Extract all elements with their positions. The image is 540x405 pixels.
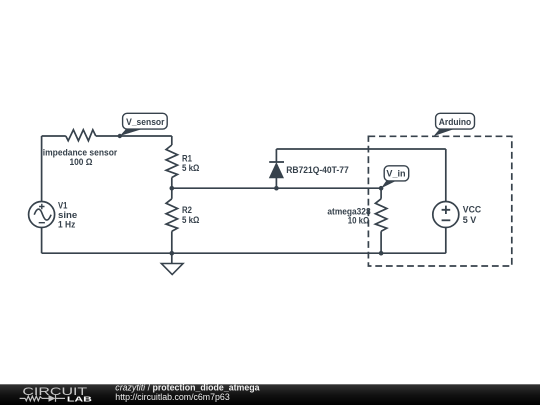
svg-text:http://circuitlab.com/c6m7p63: http://circuitlab.com/c6m7p63	[115, 392, 230, 402]
wire R2 top lead	[171, 188, 173, 199]
wire atmega bottom lead	[380, 231, 382, 253]
node junction atmega resistor bottom on bottom rail	[379, 251, 384, 256]
wire bottom rail	[42, 252, 446, 254]
svg-text:5 kΩ: 5 kΩ	[182, 163, 199, 173]
svg-text:5 V: 5 V	[463, 215, 477, 225]
svg-text:VCC: VCC	[463, 205, 482, 215]
footer logo circuit glyph (wire, resistor, diode)	[20, 395, 65, 402]
wire R1 top lead	[171, 136, 173, 145]
wire R1 bottom lead	[171, 178, 173, 189]
wire top-left rail right segment	[96, 135, 172, 137]
svg-text:RB721Q-40T-77: RB721Q-40T-77	[286, 165, 349, 175]
wire VCC bottom lead	[445, 228, 447, 254]
resistor R_sensor zigzag (impedance sensor)	[66, 130, 96, 141]
node flag V_in	[381, 166, 409, 188]
svg-text:R2: R2	[182, 205, 192, 215]
svg-text:10 kΩ: 10 kΩ	[348, 215, 370, 225]
svg-text:LAB: LAB	[67, 395, 93, 404]
svg-text:100 Ω: 100 Ω	[70, 157, 93, 167]
voltage source V1 (sine)	[29, 202, 55, 228]
resistor atmega328 zigzag	[375, 199, 386, 232]
svg-text:R1: R1	[182, 154, 192, 164]
resistor R1 zigzag	[166, 145, 177, 178]
diode D1 RB721Q (schottky, pointing up)	[269, 149, 284, 188]
svg-text:Arduino: Arduino	[439, 117, 472, 127]
ground symbol	[161, 253, 183, 274]
node junction R1/R2	[170, 186, 175, 191]
node flag Arduino	[434, 113, 475, 136]
wire R2 bottom lead	[171, 231, 173, 253]
node junction bottom rail / R2 / ground	[170, 251, 175, 256]
svg-text:V_sensor: V_sensor	[126, 117, 165, 127]
voltage source VCC (DC)	[433, 202, 459, 228]
Arduino dashed box	[368, 136, 511, 266]
wire top-right rail	[276, 148, 445, 150]
svg-text:V1: V1	[58, 201, 67, 211]
wire left rail upper (V1 top to top-left corner)	[41, 136, 43, 202]
wire atmega top lead	[380, 188, 382, 199]
label V1 name and value	[58, 201, 77, 230]
svg-text:sine: sine	[58, 210, 77, 220]
wire top-left rail left segment	[42, 135, 66, 137]
node junction atmega resistor top / V_in	[379, 186, 384, 191]
svg-text:impedance sensor: impedance sensor	[43, 148, 118, 158]
wire VCC top lead	[445, 149, 447, 202]
footer bar	[0, 384, 540, 405]
resistor R2 zigzag	[166, 199, 177, 232]
wire middle rail	[172, 187, 381, 189]
node junction diode anode on middle rail	[274, 186, 279, 191]
svg-text:1 Hz: 1 Hz	[58, 220, 76, 230]
svg-text:V_in: V_in	[386, 169, 406, 179]
svg-text:crazytiti / protection_diode_a: crazytiti / protection_diode_atmega	[115, 383, 259, 393]
node flag V_sensor	[118, 113, 168, 138]
svg-text:5 kΩ: 5 kΩ	[182, 215, 199, 225]
wire left rail lower (V1 bottom to bottom rail)	[41, 228, 43, 254]
